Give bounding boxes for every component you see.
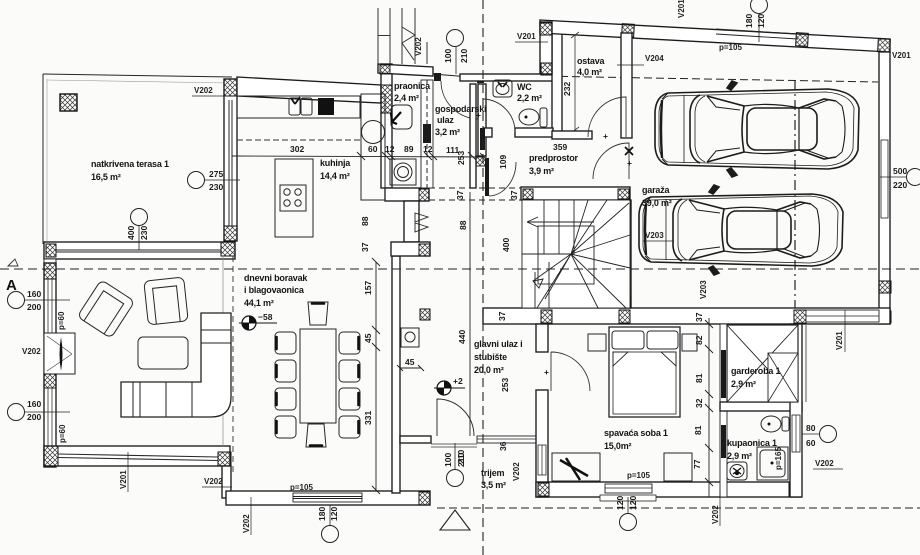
svg-text:500: 500 xyxy=(893,166,907,176)
nightstand right xyxy=(682,334,697,351)
beam projection dashed xyxy=(429,187,521,189)
svg-text:ulaz: ulaz xyxy=(437,115,454,125)
svg-text:12: 12 xyxy=(385,144,395,154)
section arrow left xyxy=(8,259,18,266)
left window dims xyxy=(8,289,71,422)
svg-text:V203: V203 xyxy=(645,231,664,240)
corner sofa xyxy=(121,313,231,417)
svg-text:12: 12 xyxy=(423,144,433,154)
svg-text:400: 400 xyxy=(501,238,511,252)
nightstand left xyxy=(588,334,606,351)
praonica/gospodarski divider xyxy=(421,80,433,188)
svg-text:V201: V201 xyxy=(677,0,686,18)
WC north wall xyxy=(460,74,553,81)
kupaonica sink xyxy=(727,462,747,480)
svg-text:39,0 m²: 39,0 m² xyxy=(642,198,672,208)
garderoba east wall xyxy=(790,324,802,497)
kitchen island xyxy=(275,159,313,237)
svg-text:88: 88 xyxy=(458,220,468,230)
bed xyxy=(609,327,680,417)
dining window dim xyxy=(322,526,339,543)
garderoba sliding door dark xyxy=(721,350,726,398)
svg-text:82: 82 xyxy=(694,335,704,345)
svg-text:kupaonica 1: kupaonica 1 xyxy=(727,438,777,448)
svg-text:77: 77 xyxy=(692,459,702,469)
svg-text:157: 157 xyxy=(363,281,373,295)
svg-text:V204: V204 xyxy=(645,54,664,63)
svg-text:180: 180 xyxy=(317,507,327,521)
bottom dashed horizontal xyxy=(437,507,920,509)
divider door leaf xyxy=(423,124,431,143)
car 2 xyxy=(639,185,843,275)
svg-text:230: 230 xyxy=(139,226,149,240)
svg-text:160: 160 xyxy=(27,289,41,299)
svg-text:V201: V201 xyxy=(892,51,911,60)
top projection lines xyxy=(378,8,427,64)
svg-text:60: 60 xyxy=(368,144,378,154)
svg-text:V202: V202 xyxy=(194,86,213,95)
svg-text:120: 120 xyxy=(615,496,625,510)
armchair 2 xyxy=(144,277,188,325)
garage south window V201 xyxy=(806,310,879,322)
vertical dim at x=470 xyxy=(469,192,471,436)
svg-text:garaža: garaža xyxy=(642,185,671,195)
garage west wall xyxy=(620,200,631,308)
bedroom south wall xyxy=(536,482,801,497)
svg-text:100: 100 xyxy=(443,49,453,63)
praonica west wall xyxy=(381,64,392,188)
svg-text:V201: V201 xyxy=(119,470,128,489)
north triangle xyxy=(440,510,470,530)
svg-text:20,0 m²: 20,0 m² xyxy=(474,365,504,375)
garage door leaf+arc from predprostor xyxy=(593,143,629,179)
svg-text:garderoba 1: garderoba 1 xyxy=(731,366,781,376)
terrace outline xyxy=(43,74,232,77)
stairs xyxy=(522,200,630,308)
svg-text:kuhinja: kuhinja xyxy=(320,158,351,168)
dimension line kitchen horizontal xyxy=(232,151,488,161)
ostava door arc xyxy=(588,97,626,137)
praonica north wall xyxy=(378,64,433,76)
svg-text:3,9 m²: 3,9 m² xyxy=(529,166,554,176)
svg-text:81: 81 xyxy=(694,373,704,383)
predprostor door leaf dark xyxy=(485,158,489,196)
washing machine xyxy=(390,159,416,185)
svg-text:37: 37 xyxy=(455,190,465,200)
svg-text:45: 45 xyxy=(363,333,373,343)
bedroom east wall xyxy=(720,324,727,497)
gospodarski door arc xyxy=(441,81,479,119)
svg-text:V202: V202 xyxy=(22,347,41,356)
faucet xyxy=(291,97,300,104)
ostava west wall xyxy=(540,22,552,74)
svg-text:88: 88 xyxy=(360,216,370,226)
ostava east wall xyxy=(621,33,632,138)
west window 2 xyxy=(48,388,52,446)
garage north window p=105 xyxy=(716,29,798,34)
WC west wall xyxy=(478,84,486,156)
svg-text:V202: V202 xyxy=(512,462,521,481)
garage dashed horizontal xyxy=(536,76,878,82)
svg-text:V201: V201 xyxy=(835,331,844,350)
svg-text:p=60: p=60 xyxy=(58,424,67,443)
svg-text:37: 37 xyxy=(509,190,519,200)
svg-text:spavaća soba 1: spavaća soba 1 xyxy=(604,428,668,438)
dining window p=105 xyxy=(293,493,362,502)
boiler xyxy=(401,328,419,347)
right bedroom dims xyxy=(708,318,710,497)
kitchen counter vertical xyxy=(361,94,385,200)
hall west wall xyxy=(392,256,400,493)
svg-text:V201: V201 xyxy=(517,32,536,41)
parapet wall terrace/living room xyxy=(44,242,235,259)
section line A-A horizontal xyxy=(0,268,920,270)
west wall window V202 element xyxy=(44,333,75,374)
cooktop xyxy=(280,185,306,211)
svg-text:220: 220 xyxy=(893,180,907,190)
svg-text:stubište: stubište xyxy=(474,352,507,362)
corner piece NW living room xyxy=(44,259,56,265)
svg-text:200: 200 xyxy=(27,302,41,312)
armchair 1 xyxy=(77,280,135,339)
svg-text:predprostor: predprostor xyxy=(529,153,579,163)
wardrobe garderoba xyxy=(727,325,798,402)
svg-text:2,9 m²: 2,9 m² xyxy=(731,379,756,389)
svg-text:V202: V202 xyxy=(711,505,720,524)
svg-text:V203: V203 xyxy=(699,280,708,299)
kitchen west wall (glazed) xyxy=(224,79,237,241)
dining south wall xyxy=(226,491,430,505)
svg-text:160: 160 xyxy=(27,399,41,409)
kitchen SE corner wall xyxy=(391,242,430,256)
living room south wall xyxy=(44,446,230,466)
garage window top dim xyxy=(751,0,768,14)
svg-text:45: 45 xyxy=(405,357,415,367)
hall south wall left xyxy=(400,436,431,443)
svg-text:p=60: p=60 xyxy=(57,311,66,330)
svg-text:120: 120 xyxy=(329,507,339,521)
gospodarski door jambs xyxy=(434,73,441,81)
shower xyxy=(757,447,788,480)
hall south window p=36 xyxy=(477,436,537,443)
svg-text:+: + xyxy=(544,367,549,377)
svg-text:natkrivena terasa 1: natkrivena terasa 1 xyxy=(91,159,169,169)
WC toilet xyxy=(519,109,539,125)
svg-text:ostava: ostava xyxy=(577,56,606,66)
svg-text:16,5 m²: 16,5 m² xyxy=(91,172,121,182)
wall under praonica xyxy=(404,201,419,242)
svg-text:15,0m²: 15,0m² xyxy=(604,441,632,451)
hall column xyxy=(420,309,430,320)
elevation marker +2 xyxy=(434,376,465,395)
400/230 dim xyxy=(131,209,148,226)
kitchen counter top xyxy=(237,96,360,118)
svg-text:3,2 m²: 3,2 m² xyxy=(435,127,460,137)
svg-text:440: 440 xyxy=(457,330,467,344)
kitchen oven black xyxy=(318,98,334,115)
upper floor edge dashed in living room xyxy=(232,256,234,472)
svg-text:praonica: praonica xyxy=(394,81,431,91)
svg-text:p=105: p=105 xyxy=(719,43,742,52)
kupaonica east window p=165 xyxy=(792,415,800,452)
svg-text:i blagovaonica: i blagovaonica xyxy=(244,285,305,295)
svg-text:V202: V202 xyxy=(204,477,223,486)
svg-text:V202: V202 xyxy=(815,459,834,468)
svg-text:109: 109 xyxy=(498,155,508,169)
kupaonica window dim xyxy=(820,426,837,443)
WC door leaf dark + arc xyxy=(480,128,485,150)
garage east wall xyxy=(879,52,890,324)
terrace column xyxy=(60,94,77,111)
svg-text:2,2 m²: 2,2 m² xyxy=(517,93,542,103)
svg-text:+2: +2 xyxy=(453,376,463,386)
svg-text:302: 302 xyxy=(290,144,304,154)
svg-text:4,0 m²: 4,0 m² xyxy=(577,67,602,77)
svg-text:60: 60 xyxy=(806,438,816,448)
svg-text:37: 37 xyxy=(497,311,507,321)
chairs xyxy=(275,302,360,447)
dim 45 hall xyxy=(400,367,421,369)
predprostor south beam xyxy=(521,187,630,200)
car 1 xyxy=(655,81,859,177)
garderoba/kupaonica divider xyxy=(720,402,802,411)
WC south wall xyxy=(484,128,492,137)
bedroom south window 120/120 xyxy=(605,484,652,493)
garage east dim xyxy=(907,169,920,186)
praonica south wall xyxy=(385,188,429,201)
kitchen sink double xyxy=(289,98,300,115)
svg-text:253: 253 xyxy=(456,151,466,165)
svg-text:81: 81 xyxy=(693,425,703,435)
ostava north wall / garage north wall xyxy=(540,20,890,52)
living room west wall xyxy=(44,263,56,467)
svg-text:89: 89 xyxy=(404,144,414,154)
svg-text:+: + xyxy=(476,110,481,120)
kitchen upper cabinet dashed xyxy=(237,139,361,141)
garage axis dashed vertical xyxy=(794,80,796,308)
bedroom bench right xyxy=(664,453,692,481)
bedroom bench left xyxy=(552,453,600,481)
svg-text:232: 232 xyxy=(562,82,572,96)
bedroom door arc xyxy=(551,352,590,391)
svg-text:120: 120 xyxy=(756,14,766,28)
svg-text:+: + xyxy=(627,158,632,168)
gospodarski north header xyxy=(433,74,482,78)
svg-text:glavni ulaz i: glavni ulaz i xyxy=(474,339,522,349)
south wall step down xyxy=(222,466,231,498)
dining table xyxy=(300,329,336,423)
kitchen east wall xyxy=(470,84,476,188)
svg-text:dnevni boravak: dnevni boravak xyxy=(244,273,308,283)
main door dim xyxy=(447,470,464,487)
WC sink xyxy=(493,80,512,97)
svg-text:14,4 m²: 14,4 m² xyxy=(320,171,350,181)
main door leaf+arc xyxy=(437,399,474,436)
praonica sink xyxy=(391,105,412,129)
vertical dim at x=376 xyxy=(375,262,377,490)
svg-text:331: 331 xyxy=(363,411,373,425)
svg-text:2,9 m²: 2,9 m² xyxy=(727,451,752,461)
kupaonica toilet xyxy=(761,416,781,432)
garage / bedroom separating wall xyxy=(483,308,890,324)
section line vertical xyxy=(482,0,484,555)
ostava south wall xyxy=(552,131,592,139)
svg-text:100: 100 xyxy=(443,453,453,467)
top door dim xyxy=(447,30,464,47)
svg-text:36: 36 xyxy=(498,441,508,451)
svg-text:44,1 m²: 44,1 m² xyxy=(244,298,274,308)
svg-text:210: 210 xyxy=(456,450,466,464)
bedroom west wall upper xyxy=(536,324,548,352)
kupaonica door dark xyxy=(721,425,726,458)
svg-text:80: 80 xyxy=(806,423,816,433)
kitchen top wall xyxy=(237,77,381,103)
elevation marker -58 xyxy=(239,312,277,330)
svg-text:p=105: p=105 xyxy=(627,471,650,480)
svg-text:2,4 m²: 2,4 m² xyxy=(394,93,419,103)
svg-text:253: 253 xyxy=(500,378,510,392)
west window 1 xyxy=(48,279,52,333)
svg-text:−58: −58 xyxy=(258,312,273,322)
bedroom west wall lower xyxy=(536,390,548,497)
svg-text:359: 359 xyxy=(553,142,567,152)
svg-text:trijem: trijem xyxy=(481,468,505,478)
svg-text:275: 275 xyxy=(209,169,223,179)
coffee table xyxy=(138,337,188,369)
svg-text:400: 400 xyxy=(126,226,136,240)
svg-text:120: 120 xyxy=(628,496,638,510)
svg-text:210: 210 xyxy=(459,49,469,63)
svg-text:+: + xyxy=(603,131,608,141)
svg-text:WC: WC xyxy=(517,82,532,92)
garage east window V201 xyxy=(881,140,888,218)
svg-text:37: 37 xyxy=(694,312,704,322)
svg-text:230: 230 xyxy=(209,182,223,192)
svg-text:37: 37 xyxy=(360,242,370,252)
275/230 dim xyxy=(188,172,205,189)
svg-text:32: 32 xyxy=(694,398,704,408)
svg-text:p=165: p=165 xyxy=(774,447,783,470)
svg-text:V202: V202 xyxy=(242,514,251,533)
svg-text:180: 180 xyxy=(744,14,754,28)
svg-text:200: 200 xyxy=(27,412,41,422)
bedroom window dim xyxy=(620,514,637,531)
svg-text:3,5 m²: 3,5 m² xyxy=(481,480,506,490)
WC east wall xyxy=(552,33,562,137)
door wedges kitchen-hall xyxy=(415,213,428,232)
svg-text:p=105: p=105 xyxy=(290,483,313,492)
